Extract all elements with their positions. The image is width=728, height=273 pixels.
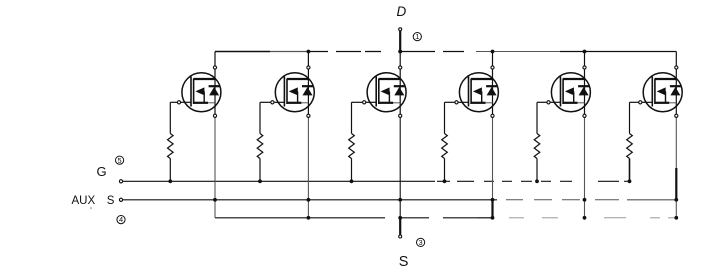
svg-text:G: G <box>97 164 107 179</box>
svg-text:3: 3 <box>419 238 423 247</box>
svg-text:5: 5 <box>118 156 122 165</box>
svg-text:S: S <box>107 195 115 207</box>
svg-text:4: 4 <box>119 215 123 224</box>
svg-text:D: D <box>397 4 407 19</box>
svg-text:S: S <box>399 254 409 270</box>
svg-text:1: 1 <box>415 32 419 41</box>
svg-text:AUX: AUX <box>72 195 96 207</box>
